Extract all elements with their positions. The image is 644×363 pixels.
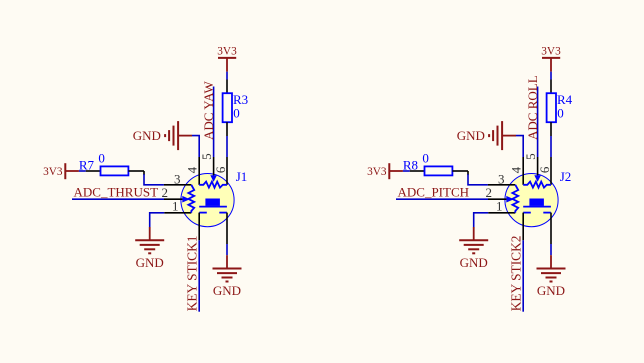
joystick J2 pin 1 — [488, 212, 515, 214]
joystick J1 wiper arrow pin 2 — [182, 196, 190, 203]
power port 3V3 (top, net to R4) — [541, 45, 561, 71]
joystick J1 pin 4 — [198, 157, 200, 185]
ground GND (bottom left) — [135, 227, 164, 270]
joystick J1 pin 1 — [164, 212, 191, 214]
joystick J2 body circle — [505, 174, 558, 227]
wire J button pin to GND — [550, 244, 552, 255]
svg-text:ADC ROLL: ADC ROLL — [525, 75, 540, 140]
ground GND (bottom right) — [213, 255, 242, 298]
svg-text:1: 1 — [172, 198, 179, 213]
power port 3V3 (left, net to R8) — [367, 163, 403, 179]
joystick J2 push button — [523, 199, 551, 213]
wire 3V3 to R4 pin 1 — [550, 72, 552, 80]
resistor R3 value 0 — [223, 80, 249, 137]
ground GND (bottom right) — [537, 255, 566, 298]
resistor R7 value 0 — [79, 151, 144, 176]
svg-text:GND: GND — [457, 128, 485, 143]
wire R3 pin 2 to J pin 6 — [226, 136, 228, 157]
svg-text:2: 2 — [162, 185, 169, 200]
wire J pin 1 to GND — [150, 213, 165, 227]
wire 3V3 to R8 pin 1 — [403, 170, 410, 172]
wire net ADC ROLL to J pin 5 — [537, 87, 539, 158]
svg-text:GND: GND — [213, 283, 241, 298]
ground GND (bottom left) — [459, 227, 488, 270]
joystick J2 horizontal potentiometer — [523, 182, 551, 188]
svg-text:1: 1 — [496, 198, 503, 213]
wire net KEY STICK1 — [198, 240, 200, 311]
svg-text:GND: GND — [133, 128, 161, 143]
svg-text:3: 3 — [498, 171, 505, 186]
svg-text:0: 0 — [557, 106, 564, 121]
joystick J1 pin 5 — [213, 157, 215, 177]
wire net ADC_THRUST to J pin 2 — [72, 198, 164, 200]
joystick J1 pin 2 — [164, 198, 186, 200]
joystick J1 wiper arrow pin 5 — [210, 175, 217, 182]
joystick J1 pin 3 — [164, 184, 191, 186]
svg-text:J1: J1 — [236, 169, 248, 184]
svg-text:6: 6 — [213, 166, 228, 173]
svg-text:KEY STICK1: KEY STICK1 — [185, 236, 200, 312]
wire GND to J pin 4 — [192, 136, 199, 157]
svg-text:5: 5 — [199, 153, 214, 160]
joystick J2 vertical potentiometer — [512, 185, 518, 213]
joystick J1 push button — [199, 199, 227, 213]
ground GND (top left) — [133, 121, 192, 150]
joystick J1 pin 6 — [226, 157, 228, 185]
svg-text:ADC_THRUST: ADC_THRUST — [74, 184, 159, 199]
svg-text:3: 3 — [174, 171, 181, 186]
wire J pin 1 to GND — [474, 213, 489, 227]
svg-text:4: 4 — [184, 166, 199, 173]
joystick J2 wiper arrow pin 5 — [534, 175, 541, 182]
svg-text:ADC_PITCH: ADC_PITCH — [398, 184, 470, 199]
svg-text:KEY STICK2: KEY STICK2 — [509, 236, 524, 312]
joystick J1 vertical potentiometer — [188, 185, 194, 213]
wire 3V3 to R7 pin 1 — [79, 170, 86, 172]
svg-text:GND: GND — [460, 255, 488, 270]
joystick J2 button pin (right, to GND) — [550, 213, 552, 244]
power port 3V3 (left, net to R7) — [43, 163, 79, 179]
svg-text:3V3: 3V3 — [541, 45, 561, 57]
svg-text:2: 2 — [486, 185, 493, 200]
joystick J2 pin 5 — [537, 157, 539, 177]
joystick J2 wiper arrow pin 2 — [506, 196, 514, 203]
wire net ADC YAW to J pin 5 — [213, 87, 215, 158]
wire net ADC_PITCH to J pin 2 — [396, 198, 488, 200]
svg-text:ADC YAW: ADC YAW — [201, 80, 216, 140]
joystick J2 pin 3 — [488, 184, 515, 186]
svg-text:3V3: 3V3 — [43, 166, 63, 178]
joystick J2 pin 2 — [488, 198, 510, 200]
svg-text:GND: GND — [537, 283, 565, 298]
wire J button pin to GND — [226, 244, 228, 255]
ground GND (top left) — [457, 121, 516, 150]
svg-text:R7: R7 — [79, 158, 95, 173]
svg-text:3V3: 3V3 — [217, 45, 237, 57]
svg-text:3V3: 3V3 — [367, 166, 387, 178]
svg-text:4: 4 — [508, 166, 523, 173]
resistor R8 value 0 — [403, 151, 468, 176]
svg-text:GND: GND — [136, 255, 164, 270]
svg-text:0: 0 — [98, 151, 105, 166]
joystick J1 button pin (right, to GND) — [226, 213, 228, 244]
svg-text:0: 0 — [233, 106, 240, 121]
svg-text:R8: R8 — [403, 158, 418, 173]
joystick J2 pin 4 — [522, 157, 524, 185]
wire R4 pin 2 to J pin 6 — [550, 136, 552, 157]
resistor R4 value 0 — [547, 80, 573, 137]
wire GND to J pin 4 — [516, 136, 523, 157]
svg-text:0: 0 — [422, 151, 429, 166]
wire R7 pin 2 to J pin 3 — [143, 171, 145, 175]
svg-text:6: 6 — [537, 166, 552, 173]
svg-text:5: 5 — [523, 153, 538, 160]
joystick J2 pin 6 — [550, 157, 552, 185]
wire R8 pin 2 to J pin 3 — [467, 171, 469, 175]
joystick J1 body circle — [181, 174, 234, 227]
svg-text:J2: J2 — [560, 169, 572, 184]
joystick J2 button pin (left, net KEY STICK2) — [522, 213, 524, 241]
joystick J1 button pin (left, net KEY STICK1) — [198, 213, 200, 241]
wire net KEY STICK2 — [522, 240, 524, 311]
wire 3V3 to R3 pin 1 — [226, 72, 228, 80]
power port 3V3 (top, net to R3) — [217, 45, 237, 71]
joystick J1 horizontal potentiometer — [199, 182, 227, 188]
